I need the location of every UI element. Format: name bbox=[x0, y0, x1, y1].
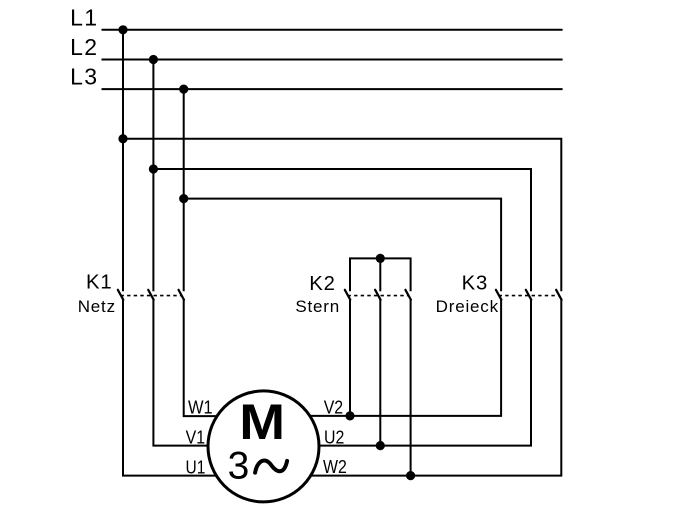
node L3 branch junction bbox=[179, 194, 188, 203]
wire tap line L3 to K3 pole 1 bbox=[184, 199, 501, 292]
wire L2 drop to K1 pole 2 bbox=[152, 60, 154, 292]
motor M1 tilde bbox=[255, 460, 287, 472]
svg-text:K1: K1 bbox=[86, 272, 113, 294]
wire K1 pole 1 to U1 terminal bbox=[123, 299, 216, 475]
wire L3 drop to K1 pole 3 bbox=[183, 89, 185, 291]
wire V2 terminal to K3 pole 1 bbox=[311, 299, 501, 416]
svg-text:M: M bbox=[239, 394, 285, 450]
wire K2 pole 3 to W2 line bbox=[410, 299, 412, 475]
svg-text:V2: V2 bbox=[324, 396, 343, 418]
node V2 junction bbox=[345, 411, 354, 420]
svg-text:Dreieck: Dreieck bbox=[436, 297, 499, 316]
svg-text:L3: L3 bbox=[70, 64, 98, 90]
svg-text:Stern: Stern bbox=[295, 297, 340, 316]
node L2 tap junction bbox=[149, 55, 158, 64]
motor M1 circle bbox=[208, 391, 319, 502]
wire star bridge center drop bbox=[379, 258, 381, 291]
svg-text:W2: W2 bbox=[323, 456, 347, 478]
node U2 junction bbox=[376, 441, 385, 450]
wire L3 bus line bbox=[102, 88, 563, 90]
contactor K2 pole 1 contact blade bbox=[345, 290, 351, 300]
wire K1 pole 3 to W1 terminal bbox=[184, 299, 217, 416]
contactor K2 mechanical linkage bbox=[348, 295, 409, 297]
wire L2 bus line bbox=[102, 59, 563, 61]
wire U2 terminal to K3 pole 2 bbox=[319, 299, 531, 445]
wire K1 pole 2 to V1 terminal bbox=[153, 299, 207, 445]
wire star bridge bbox=[350, 258, 411, 291]
node star point bbox=[376, 254, 385, 263]
contactor K3 pole 3 contact blade bbox=[556, 290, 562, 300]
svg-text:L2: L2 bbox=[70, 34, 98, 60]
contactor K3 pole 2 contact blade bbox=[526, 290, 532, 300]
svg-text:U2: U2 bbox=[324, 426, 344, 448]
node L1 branch junction bbox=[118, 134, 127, 143]
node L3 tap junction bbox=[179, 85, 188, 94]
svg-text:L1: L1 bbox=[70, 4, 98, 30]
node W2 junction bbox=[406, 471, 415, 480]
svg-text:3: 3 bbox=[228, 445, 250, 488]
wire W2 terminal to K3 pole 3 bbox=[311, 299, 562, 475]
contactor K3 mechanical linkage bbox=[499, 295, 560, 297]
contactor K2 pole 3 contact blade bbox=[405, 290, 411, 300]
wire tap line L2 to K3 pole 2 bbox=[153, 169, 531, 291]
node L1 tap junction bbox=[118, 25, 127, 34]
svg-text:W1: W1 bbox=[188, 397, 213, 418]
contactor K1 pole 2 contact blade bbox=[148, 290, 154, 300]
contactor K1 pole 3 contact blade bbox=[179, 290, 185, 300]
wire L1 drop to K1 pole 1 bbox=[122, 30, 124, 292]
contactor K1 pole 1 contact blade bbox=[118, 290, 124, 300]
wire tap line L1 to K3 pole 3 bbox=[123, 139, 561, 292]
wire K2 pole 1 to V2 line bbox=[349, 299, 351, 416]
svg-text:V1: V1 bbox=[186, 426, 205, 448]
contactor K1 mechanical linkage bbox=[121, 295, 182, 297]
svg-text:K2: K2 bbox=[309, 273, 336, 295]
contactor K3 pole 1 contact blade bbox=[496, 290, 502, 300]
node L2 branch junction bbox=[149, 164, 158, 173]
wire K2 pole 2 to U2 line bbox=[379, 299, 381, 445]
svg-text:K3: K3 bbox=[462, 273, 489, 295]
svg-text:Netz: Netz bbox=[78, 297, 116, 316]
svg-text:U1: U1 bbox=[186, 456, 206, 478]
wire L1 bus line bbox=[102, 29, 563, 31]
contactor K2 pole 2 contact blade bbox=[375, 290, 381, 300]
